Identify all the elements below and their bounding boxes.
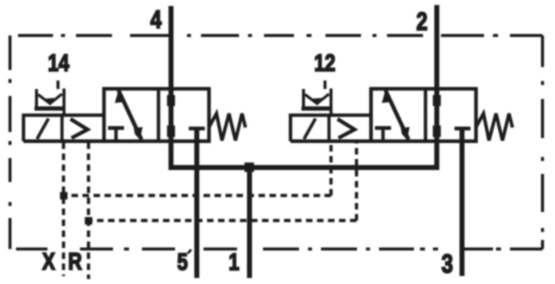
svg-text:3: 3 — [442, 249, 454, 278]
svg-text:14: 14 — [48, 49, 69, 77]
svg-text:2: 2 — [416, 8, 427, 36]
svg-text:4: 4 — [150, 6, 161, 34]
svg-text:12: 12 — [314, 49, 335, 77]
svg-text:5: 5 — [177, 248, 188, 276]
svg-text:1: 1 — [229, 248, 240, 276]
svg-text:R: R — [68, 247, 82, 275]
svg-text:X: X — [42, 247, 55, 275]
